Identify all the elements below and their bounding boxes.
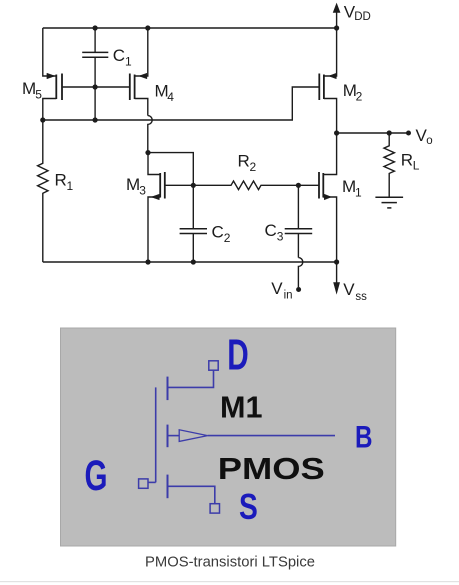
junction dot VSS on bottom rail xyxy=(334,259,339,264)
svg-text:M: M xyxy=(22,79,36,98)
output wire Vo xyxy=(337,132,409,134)
svg-text:R: R xyxy=(238,152,250,171)
svg-text:ss: ss xyxy=(355,291,367,303)
LTSpice body arrow xyxy=(168,430,336,442)
svg-text:S: S xyxy=(239,486,258,527)
junction dot M2 drain node xyxy=(334,130,339,135)
junction dot gate line xyxy=(93,84,98,89)
capacitor C3 xyxy=(285,185,313,257)
VDD supply arrow xyxy=(333,4,340,29)
svg-text:4: 4 xyxy=(167,90,174,104)
svg-text:PMOS: PMOS xyxy=(218,451,325,486)
Vin terminal dot xyxy=(296,287,301,292)
LTSpice PMOS gate line xyxy=(155,387,157,482)
bottom rail wire xyxy=(43,261,337,263)
svg-text:V: V xyxy=(343,280,355,299)
junction dot VDD on rail xyxy=(334,25,339,30)
junction dot C1 top on rail xyxy=(93,25,98,30)
svg-text:M1: M1 xyxy=(220,389,263,424)
svg-text:PMOS-transistori LTSpice: PMOS-transistori LTSpice xyxy=(145,555,315,571)
LTSpice channel middle stub xyxy=(167,425,169,448)
transistor M3 (NMOS, mirrored, diode-connected) xyxy=(148,153,193,262)
resistor RL xyxy=(384,133,394,197)
junction dot M4 source on rail xyxy=(145,25,150,30)
svg-text:C: C xyxy=(113,46,125,65)
Vo terminal dot xyxy=(406,131,411,136)
svg-text:3: 3 xyxy=(139,183,146,197)
VSS supply arrow xyxy=(334,262,340,294)
svg-text:1: 1 xyxy=(355,186,362,200)
svg-text:3: 3 xyxy=(277,230,284,244)
LTSpice gate wire xyxy=(148,481,156,483)
svg-text:5: 5 xyxy=(35,88,42,102)
capacitor C2 xyxy=(180,185,207,262)
transistor M4 (PMOS) xyxy=(130,28,148,116)
LTSpice source terminal square xyxy=(210,504,219,513)
LTSpice drain wire xyxy=(168,370,214,387)
svg-text:R: R xyxy=(55,170,67,189)
resistor R1 xyxy=(38,120,48,262)
svg-text:o: o xyxy=(426,135,432,147)
junction dot M3 gate node xyxy=(191,183,196,188)
junction dot M3 drain xyxy=(145,150,150,155)
svg-text:2: 2 xyxy=(356,90,363,104)
top rail wire (VDD rail) xyxy=(43,27,337,29)
resistor R2 xyxy=(193,181,298,190)
junction dot RL branch xyxy=(387,130,392,135)
LTSpice gate terminal square xyxy=(139,479,148,488)
ground symbol xyxy=(375,197,403,208)
LTSpice drain terminal square xyxy=(209,361,218,370)
svg-text:2: 2 xyxy=(250,160,257,174)
svg-text:M: M xyxy=(126,175,140,194)
svg-text:1: 1 xyxy=(67,179,74,193)
svg-text:C: C xyxy=(265,221,277,240)
M3 drain junction wire xyxy=(148,153,193,186)
LTSpice source wire xyxy=(168,486,215,503)
svg-text:L: L xyxy=(413,159,420,173)
junction dot M1 gate node xyxy=(296,183,301,188)
svg-text:V: V xyxy=(271,279,283,298)
footer divider line xyxy=(0,581,459,582)
capacitor C1 xyxy=(82,28,108,120)
svg-text:B: B xyxy=(355,418,373,454)
wire hop M4 drain over interconnect xyxy=(148,116,152,153)
svg-text:2: 2 xyxy=(224,231,231,245)
junction dot C2 on bottom rail xyxy=(191,259,196,264)
junction dot C1 node on interconnect xyxy=(93,117,98,122)
gate line M5-M4 xyxy=(62,86,130,88)
svg-text:DD: DD xyxy=(354,11,371,23)
svg-text:C: C xyxy=(212,223,224,242)
junction dot M3 source on bottom rail xyxy=(145,259,150,264)
interconnect wire y=120 xyxy=(43,87,320,120)
wire hop Vin over bottom rail xyxy=(298,258,302,287)
LTSpice channel top stub xyxy=(167,377,169,401)
junction dot left interconnect xyxy=(40,117,45,122)
svg-text:1: 1 xyxy=(125,55,132,69)
svg-text:R: R xyxy=(401,151,413,170)
svg-text:G: G xyxy=(85,452,108,500)
transistor M5 (PMOS, mirrored) xyxy=(43,28,62,120)
transistor M1 (NMOS) xyxy=(298,133,336,262)
svg-text:in: in xyxy=(284,290,293,302)
svg-text:D: D xyxy=(227,331,249,380)
transistor M2 (PMOS) xyxy=(319,28,336,133)
LTSpice channel bottom stub xyxy=(167,475,169,499)
LTSpice gray panel xyxy=(61,328,396,546)
